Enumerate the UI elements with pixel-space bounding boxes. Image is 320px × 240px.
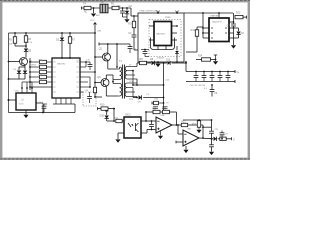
svg-text:Q2: Q2 xyxy=(99,48,103,51)
diode D1 xyxy=(125,5,133,17)
diode D13 xyxy=(164,59,187,65)
diode D3 xyxy=(234,28,245,38)
wire xyxy=(218,138,220,140)
wire tap6 xyxy=(127,96,137,98)
wire xyxy=(202,12,204,38)
label VIN xyxy=(84,10,88,13)
transistor Q3 xyxy=(97,76,109,87)
wire tap2b xyxy=(127,74,135,76)
capacitor C7 xyxy=(227,24,236,27)
pin 2 stub xyxy=(172,32,178,34)
wire xyxy=(113,109,115,121)
svg-text:4: 4 xyxy=(138,120,139,122)
svg-text:VCC: VCC xyxy=(90,20,95,22)
wire xyxy=(119,7,131,9)
wire xyxy=(118,133,124,139)
pin 5 stub xyxy=(149,39,154,41)
wire xyxy=(91,7,100,9)
wire collector Q2 xyxy=(99,43,108,54)
pin stub right 5 xyxy=(80,81,88,83)
resistor R18 xyxy=(29,80,52,83)
svg-text:ISO1: ISO1 xyxy=(125,114,131,116)
label D6 value xyxy=(13,69,17,71)
wire xyxy=(226,137,235,141)
wire xyxy=(218,12,220,18)
wire xyxy=(196,126,212,128)
diode D4 xyxy=(175,46,179,63)
label net2 xyxy=(190,85,205,87)
transformer T1 secondary xyxy=(125,67,127,97)
net VOUT xyxy=(232,70,240,74)
ground xyxy=(231,45,236,48)
svg-text:R19: R19 xyxy=(152,108,157,110)
pin 4 stub xyxy=(149,25,154,27)
wire base Q2 xyxy=(94,56,103,58)
wire xyxy=(19,65,25,67)
wire pin xyxy=(29,86,52,88)
label U3 top xyxy=(210,15,220,18)
svg-text:D10: D10 xyxy=(100,114,105,117)
wire xyxy=(147,62,152,64)
wire xyxy=(185,61,187,71)
capacitor C2 xyxy=(128,28,138,50)
svg-text:+VIN: +VIN xyxy=(97,30,102,32)
svg-text:24: 24 xyxy=(77,60,79,62)
resistor R1 xyxy=(111,1,119,9)
wire tap1 xyxy=(127,66,137,68)
wire xyxy=(141,120,156,122)
pin 1 stub xyxy=(172,25,178,27)
ground xyxy=(158,131,163,139)
resistor R8 xyxy=(139,58,146,65)
off-page connector xyxy=(90,20,96,33)
wire xyxy=(155,62,164,64)
label U1 pins xyxy=(54,60,79,62)
capacitor C13 xyxy=(218,71,223,82)
ground xyxy=(115,139,120,142)
svg-text:U6B: U6B xyxy=(187,128,192,130)
wire tap2 xyxy=(127,70,134,72)
capacitor C20 xyxy=(163,107,168,109)
capacitor C1 xyxy=(118,5,125,17)
wire right vert xyxy=(211,119,213,131)
label R9 value xyxy=(146,94,150,96)
wire top bus xyxy=(184,12,233,14)
label Q1 value xyxy=(29,65,37,67)
shield outline dashed xyxy=(149,20,181,57)
pin stub right 4 xyxy=(80,76,90,78)
wire xyxy=(53,104,75,113)
wire right bus xyxy=(233,13,235,45)
diode D5 xyxy=(24,49,32,58)
label U6 name xyxy=(187,128,192,130)
node TP1 xyxy=(157,11,160,14)
diode D7 xyxy=(23,67,27,79)
wire left bus xyxy=(8,33,10,113)
capacitor C21 xyxy=(209,131,214,144)
wire xyxy=(107,120,115,122)
label R16 xyxy=(39,70,44,72)
wire base Q3 xyxy=(94,82,101,84)
wire xyxy=(132,88,134,98)
wire top rail xyxy=(183,119,212,121)
op-amp U6 xyxy=(183,130,199,146)
node TP2 xyxy=(176,11,179,14)
capacitor C26 xyxy=(141,49,149,57)
wire noninv xyxy=(176,141,183,144)
pin text smudge xyxy=(53,62,79,92)
label U2 bot xyxy=(15,91,20,93)
optocoupler U4 xyxy=(124,114,141,138)
svg-text:R20: R20 xyxy=(162,108,167,110)
wire feedback row xyxy=(146,112,153,121)
transistor Q2 xyxy=(99,48,111,61)
wire xyxy=(93,32,102,98)
pin 3 stub xyxy=(172,39,178,41)
shield pocket xyxy=(151,38,175,50)
label C17 value xyxy=(39,102,44,104)
resistor R14 xyxy=(29,60,52,63)
label C9b xyxy=(204,88,208,90)
resistor R3 xyxy=(128,15,136,28)
label block xyxy=(140,11,159,13)
resistor R20 xyxy=(162,108,170,113)
label U5 name xyxy=(160,114,165,117)
svg-text:R22: R22 xyxy=(192,124,197,126)
resistor R12 xyxy=(186,27,203,52)
choke T2 xyxy=(100,0,108,13)
label R14 xyxy=(39,60,44,62)
wire loop outer xyxy=(138,13,184,62)
capacitor C22 xyxy=(209,145,214,152)
pin stubs U3 left xyxy=(202,27,209,38)
label R15 xyxy=(39,65,44,67)
resistor R24 xyxy=(196,58,216,61)
wire bottom rail xyxy=(9,112,76,114)
capacitor C17 xyxy=(42,104,47,113)
wire xyxy=(8,99,16,101)
pin stub right 1 xyxy=(80,61,88,63)
svg-text:RTN: RTN xyxy=(129,99,133,101)
resistor R15 xyxy=(29,65,52,68)
wire emitter Q2 xyxy=(108,60,118,69)
ground xyxy=(124,19,129,22)
wire xyxy=(163,63,165,113)
label tap xyxy=(129,99,133,101)
svg-text:D13: D13 xyxy=(166,59,171,61)
resistor R21 xyxy=(181,121,203,126)
wire xyxy=(123,17,128,19)
svg-text:1: 1 xyxy=(125,120,126,122)
pin stub right 2 xyxy=(80,62,86,67)
IC U3 xyxy=(209,18,229,42)
wire xyxy=(107,43,117,67)
pin stub right 3 xyxy=(80,71,96,73)
wire tap3 xyxy=(127,78,137,80)
capacitor C10 xyxy=(194,71,199,82)
svg-text:OSC: OSC xyxy=(15,91,20,93)
resistor R6 xyxy=(24,32,31,48)
capacitor C24 xyxy=(116,43,136,53)
resistor R10 xyxy=(98,103,115,110)
wire xyxy=(160,111,163,113)
svg-text:PWM: PWM xyxy=(165,17,171,19)
wire xyxy=(211,96,213,98)
node dots extra xyxy=(8,57,147,113)
snubber box dashed xyxy=(83,92,96,106)
wire rail 85 xyxy=(132,71,163,86)
resistor R22 xyxy=(192,119,202,133)
border frame xyxy=(0,1,250,159)
capacitor C19 xyxy=(153,107,158,109)
label rail xyxy=(97,30,102,32)
diode D8 xyxy=(150,58,155,65)
resistor R25 xyxy=(152,99,164,105)
wire pins xyxy=(21,82,33,93)
IC U1 xyxy=(52,58,80,98)
wire to block xyxy=(131,8,138,16)
svg-text:1: 1 xyxy=(54,60,55,62)
label U4 pins xyxy=(125,120,138,122)
transformer T1 primary xyxy=(118,67,122,96)
svg-text:EMI: EMI xyxy=(96,15,100,17)
op-amp U10 controller xyxy=(154,22,172,46)
resistor R11 xyxy=(114,117,124,123)
IC U2 xyxy=(16,93,36,110)
wire output U5 xyxy=(172,124,181,126)
capacitor C23 xyxy=(220,131,229,140)
resistor R7 xyxy=(68,32,75,58)
label R23 value xyxy=(220,136,225,138)
capacitor C18 xyxy=(149,121,154,130)
svg-text:R13: R13 xyxy=(236,12,241,15)
resistor R23 xyxy=(220,137,226,140)
wire xyxy=(108,7,112,9)
fuse F1 xyxy=(83,1,91,10)
diode D10 xyxy=(100,111,109,121)
wire xyxy=(36,103,44,113)
resistor R17 xyxy=(29,75,52,78)
diode D12 xyxy=(213,55,218,65)
resistor R19 xyxy=(152,108,160,113)
wire xyxy=(202,125,204,139)
label R17 xyxy=(39,75,44,77)
diode D11 xyxy=(211,137,217,141)
diode D2 xyxy=(56,32,64,58)
wire bus xyxy=(29,58,31,90)
net GNDO xyxy=(232,80,235,83)
transformer T1 core xyxy=(119,60,124,99)
wire rail 97 xyxy=(133,97,164,99)
wire xyxy=(8,78,25,80)
svg-text:R10: R10 xyxy=(100,103,105,106)
wire xyxy=(158,46,166,50)
wire mid primary xyxy=(112,80,118,84)
wire xyxy=(137,63,140,67)
resistor R16 xyxy=(29,70,52,73)
wire main rail xyxy=(9,32,96,34)
wire tap5 xyxy=(127,87,133,89)
capacitor C15 xyxy=(88,62,93,70)
transistor Q1 xyxy=(20,58,33,66)
wire xyxy=(141,130,156,134)
wire output U6 xyxy=(199,137,213,140)
svg-text:R11: R11 xyxy=(114,117,119,120)
capacitor C12 xyxy=(210,71,215,82)
rail top xyxy=(186,71,232,73)
capacitor C9 xyxy=(210,84,218,96)
label D8 value xyxy=(157,57,164,59)
label R6 value xyxy=(28,42,33,44)
diode D9 xyxy=(138,95,142,103)
svg-text:MAX1999: MAX1999 xyxy=(212,21,222,24)
wire tap5b xyxy=(127,91,135,93)
label C15 value xyxy=(86,59,91,61)
ground xyxy=(91,7,96,17)
svg-text:R21: R21 xyxy=(181,121,186,123)
pins bottom U1 xyxy=(56,98,71,104)
svg-text:R12: R12 xyxy=(191,29,196,32)
wire collector Q3 xyxy=(106,75,113,80)
wire xyxy=(136,79,138,86)
svg-text:1N5819: 1N5819 xyxy=(157,57,164,59)
svg-text:R24: R24 xyxy=(198,55,203,57)
svg-text:MAX8597: MAX8597 xyxy=(156,33,166,36)
resistor R5 xyxy=(9,32,26,46)
label C21 value xyxy=(215,129,220,131)
wire xyxy=(170,112,177,125)
rail bottom xyxy=(186,81,232,83)
pin stubs U3 right xyxy=(229,22,234,38)
resistor R13 xyxy=(235,12,247,19)
svg-text:CHARGER: CHARGER xyxy=(210,15,220,18)
ground xyxy=(23,110,28,118)
svg-text:MAX782: MAX782 xyxy=(57,62,66,65)
label C16 value xyxy=(84,90,89,92)
capacitor C16 xyxy=(87,92,92,103)
svg-text:C31 C32 C33 C34: C31 C32 C33 C34 xyxy=(190,85,205,87)
svg-text:2N3904: 2N3904 xyxy=(29,65,37,67)
op-amp U5 xyxy=(156,117,172,133)
wire base Q1 xyxy=(8,61,20,63)
svg-text:AC: AC xyxy=(84,10,88,13)
ground xyxy=(183,146,188,153)
pin stub right 6 xyxy=(80,77,91,88)
ground xyxy=(209,152,214,155)
label T1 sec xyxy=(129,64,133,83)
label R18 xyxy=(39,80,44,82)
ground xyxy=(155,61,160,67)
svg-text:R1: R1 xyxy=(111,1,115,5)
capacitor C11 xyxy=(202,71,207,82)
capacitor C14 xyxy=(226,71,231,82)
label C25 xyxy=(165,79,170,81)
pin stub right 7 xyxy=(80,91,83,93)
label T2 value xyxy=(96,15,100,17)
label TP3 xyxy=(166,102,169,104)
wire emitter Q3 xyxy=(106,86,118,96)
label net xyxy=(165,17,171,19)
wire tap4 xyxy=(127,82,137,84)
svg-text:PWM CONTROLLER: PWM CONTROLLER xyxy=(140,11,159,13)
wire input top rail xyxy=(82,7,85,10)
label R24 xyxy=(198,55,203,57)
label R5 value xyxy=(9,43,13,45)
svg-text:U5A: U5A xyxy=(160,114,165,117)
wire xyxy=(177,124,183,134)
diode D6 xyxy=(17,67,21,79)
